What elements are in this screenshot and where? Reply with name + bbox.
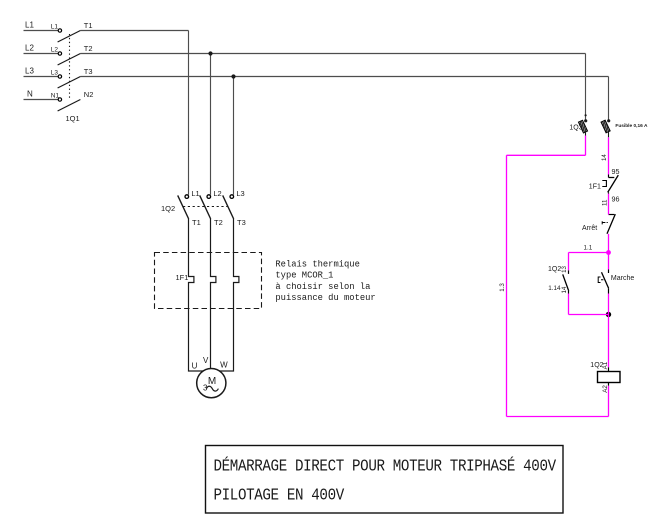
svg-text:L3: L3	[236, 189, 244, 198]
svg-text:14: 14	[561, 286, 568, 293]
svg-text:11: 11	[601, 199, 608, 206]
svg-text:L1: L1	[51, 24, 59, 31]
svg-text:A2: A2	[602, 385, 609, 393]
svg-text:Fusible 0,16 A: Fusible 0,16 A	[615, 123, 648, 129]
svg-text:T3: T3	[237, 218, 246, 227]
svg-text:W: W	[220, 361, 228, 370]
svg-text:T1: T1	[84, 21, 93, 30]
svg-text:M: M	[208, 376, 216, 387]
svg-text:1.3: 1.3	[499, 283, 506, 292]
svg-text:puissance du moteur: puissance du moteur	[275, 293, 375, 303]
svg-text:1.14: 1.14	[548, 285, 561, 292]
svg-text:PILOTAGE EN 400V: PILOTAGE EN 400V	[214, 486, 346, 505]
svg-text:Relais thermique: Relais thermique	[275, 260, 359, 270]
svg-text:95: 95	[612, 167, 620, 176]
svg-text:V: V	[203, 356, 209, 365]
svg-text:1Q2: 1Q2	[161, 204, 175, 213]
svg-text:96: 96	[612, 195, 620, 204]
svg-text:N2: N2	[84, 90, 94, 99]
svg-text:L2: L2	[25, 44, 34, 53]
svg-text:L1: L1	[191, 189, 199, 198]
svg-text:1.1: 1.1	[584, 245, 593, 252]
svg-text:1Q2: 1Q2	[548, 266, 561, 273]
svg-text:T2: T2	[84, 44, 93, 53]
svg-text:T1: T1	[192, 218, 201, 227]
svg-text:DÉMARRAGE DIRECT POUR MOTEUR T: DÉMARRAGE DIRECT POUR MOTEUR TRIPHASÉ 40…	[214, 456, 557, 475]
svg-text:T2: T2	[214, 218, 223, 227]
svg-text:L2: L2	[51, 47, 59, 54]
svg-text:Marche: Marche	[611, 275, 634, 282]
svg-text:U: U	[192, 361, 198, 370]
svg-text:13: 13	[561, 265, 568, 272]
svg-text:L3: L3	[51, 70, 59, 77]
svg-text:N1: N1	[51, 93, 60, 100]
svg-text:L1: L1	[25, 21, 34, 30]
svg-text:T3: T3	[84, 67, 93, 76]
svg-text:N: N	[27, 90, 33, 99]
svg-text:14: 14	[601, 154, 608, 161]
svg-text:à choisir selon la: à choisir selon la	[275, 282, 370, 292]
svg-text:1F1: 1F1	[589, 184, 601, 191]
svg-text:Arrêt: Arrêt	[582, 225, 597, 232]
svg-text:L3: L3	[25, 67, 34, 76]
svg-text:A1: A1	[602, 361, 609, 369]
svg-text:L2: L2	[213, 189, 221, 198]
svg-text:1F1: 1F1	[176, 273, 189, 282]
svg-text:1Q3: 1Q3	[569, 124, 582, 131]
svg-text:type MCOR_1: type MCOR_1	[275, 271, 333, 281]
svg-text:1Q1: 1Q1	[66, 114, 80, 123]
